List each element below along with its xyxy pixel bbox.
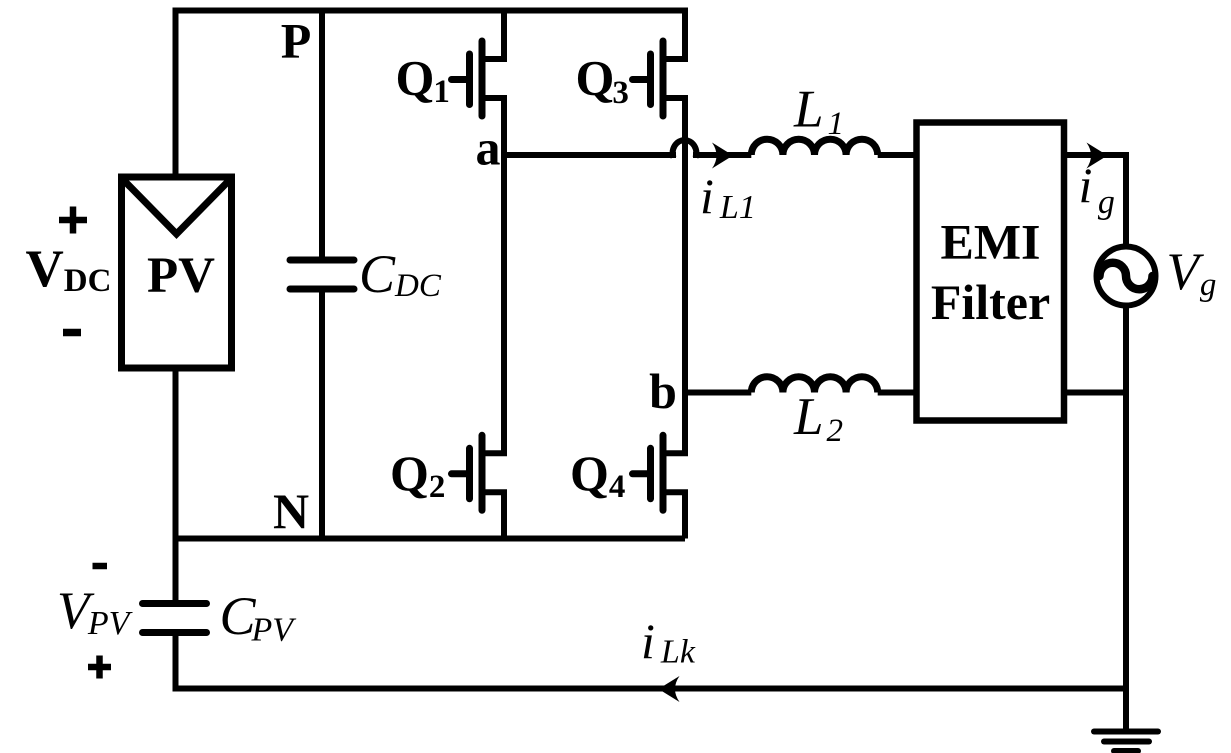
svg-text:iL1: iL1: [700, 168, 756, 226]
transistor Q4 gate bar: [647, 448, 654, 499]
svg-text:PV: PV: [147, 248, 215, 304]
capacitor CDC leg top: [319, 11, 325, 258]
wire: N rail: [176, 536, 686, 542]
wire: node a to hop over Q3 leg: [504, 140, 751, 157]
svg-text:P: P: [281, 13, 312, 69]
ground bar 3: [1114, 748, 1138, 753]
svg-text:Vg: Vg: [1167, 243, 1217, 303]
wire: Q3 source down to node b, down to Q4 drain: [663, 98, 685, 453]
svg-text:Filter: Filter: [931, 274, 1050, 330]
plus sign VDC: [59, 207, 87, 234]
wire: left vertical + top rail P: [176, 11, 686, 178]
wire: Q3 drain drop from top rail: [663, 8, 685, 60]
wire: PV bottom to N rail to capacitor CPV: [173, 368, 179, 600]
EMI filter box: [917, 123, 1065, 421]
transistor Q3 gate lead: [633, 76, 651, 83]
ground bar 2: [1104, 739, 1149, 745]
inductor L2: [751, 377, 877, 393]
arrow iL1: [712, 143, 733, 169]
AC source Vg circle: [1097, 247, 1156, 306]
wire: L1 to EMI filter: [878, 152, 917, 158]
svg-text:L1: L1: [793, 81, 844, 143]
svg-text:Q4: Q4: [570, 445, 625, 505]
svg-text:N: N: [273, 483, 309, 539]
PV chevron symbol: [124, 181, 229, 235]
wire: EMI output top to grid: [1064, 155, 1126, 247]
wire: Q4 source to N rail: [663, 492, 685, 538]
inductor L1: [751, 139, 877, 155]
capacitor CPV plates: [143, 600, 207, 607]
wire: Vg down to ground: [1123, 306, 1129, 732]
wire: Q1 source to node a, down to Q2 drain: [482, 98, 504, 453]
minus sign VPV: [93, 563, 108, 570]
capacitor CDC leg bottom: [319, 293, 325, 539]
plus sign VPV: [88, 656, 111, 679]
transistor Q4 gate lead: [633, 470, 651, 477]
wire: CPV bottom to bottom rail: [176, 636, 1127, 689]
wire: Q2 source to N rail: [482, 492, 504, 538]
svg-text:VPV: VPV: [57, 582, 134, 642]
transistor Q1 channel bar: [479, 41, 486, 116]
AC source sine wave: [1100, 263, 1153, 290]
svg-text:Q2: Q2: [390, 445, 445, 505]
transistor Q4 channel bar: [660, 435, 667, 510]
transistor Q2 gate lead: [452, 470, 470, 477]
wire: Q1 drain drop from top rail: [482, 8, 504, 60]
svg-text:VDC: VDC: [26, 240, 112, 299]
transistor Q3 channel bar: [660, 41, 667, 116]
svg-text:Q3: Q3: [576, 50, 629, 112]
capacitor CDC plates: [290, 257, 354, 264]
arrow ig: [1087, 143, 1108, 169]
svg-text:CPV: CPV: [220, 586, 298, 649]
arrow iLk: [659, 676, 680, 702]
transistor Q3 gate bar: [647, 54, 654, 105]
wire: EMI output bottom to grid: [1064, 390, 1126, 396]
svg-text:ig: ig: [1079, 157, 1115, 221]
svg-text:b: b: [649, 363, 677, 419]
minus sign VDC: [63, 329, 81, 337]
wire: node b to L2: [685, 390, 751, 396]
transistor Q2 gate bar: [466, 448, 473, 499]
svg-text:L2: L2: [793, 388, 843, 449]
svg-text:EMI: EMI: [941, 214, 1041, 270]
svg-text:Q1: Q1: [396, 50, 450, 111]
transistor Q1 gate lead: [452, 76, 470, 83]
transistor Q2 channel bar: [479, 435, 486, 510]
solar panel PV box: [122, 177, 232, 368]
svg-text:a: a: [476, 120, 501, 176]
ground bar 1: [1094, 729, 1158, 735]
svg-text:iLk: iLk: [641, 613, 696, 671]
transistor Q1 gate bar: [466, 54, 473, 105]
svg-text:CDC: CDC: [359, 244, 442, 304]
wire: L2 to EMI filter: [878, 390, 917, 396]
